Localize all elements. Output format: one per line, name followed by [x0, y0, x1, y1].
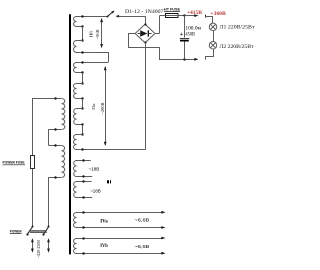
label IVb — [100, 244, 108, 249]
lamp L2 — [209, 42, 217, 50]
svg-text:HT FUSE: HT FUSE — [164, 7, 180, 11]
winding IIIa loops — [74, 161, 77, 177]
winding IIa loops 4 — [74, 135, 77, 150]
capacitor 100uF 450V — [180, 16, 190, 60]
winding IVa top lead — [76, 211, 166, 214]
primary top lead — [33, 97, 62, 156]
switch HV — [107, 11, 115, 18]
label ~6.6V upper — [135, 218, 150, 224]
label HT FUSE — [164, 7, 180, 11]
label IVa — [100, 219, 108, 224]
wire IIb-IIa series link — [108, 52, 110, 62]
winding IIIb loops — [74, 182, 77, 198]
connector tick +360V — [205, 15, 213, 18]
winding IVa loops — [74, 213, 77, 228]
svg-text:IIб: IIб — [89, 31, 94, 38]
winding IIIb top lead — [76, 180, 92, 182]
label ~200V — [100, 102, 105, 114]
winding IIa jog 2 — [76, 97, 84, 109]
bridge rectifier D1-12 — [135, 23, 155, 43]
arrow 0V rail — [183, 58, 198, 61]
primary loops upper — [62, 99, 65, 130]
winding IIb top lead — [76, 15, 107, 17]
winding IVb bottom lead — [76, 252, 166, 255]
svg-text:~6,6В: ~6,6В — [135, 244, 150, 250]
svg-text:Л2 220В/25Вт: Л2 220В/25Вт — [220, 44, 255, 50]
lamp L1 — [209, 23, 217, 31]
winding IIa bottom lead — [76, 148, 145, 150]
winding IIa loops 3 — [74, 109, 77, 125]
label POWER — [10, 230, 22, 234]
winding IIa loops 2 — [74, 84, 77, 99]
winding IIIb bottom lead — [76, 196, 92, 198]
label ~18V upper — [89, 167, 100, 173]
svg-text:~6,6В: ~6,6В — [135, 218, 150, 224]
primary tap jog — [48, 128, 61, 146]
wire bridge minus to 0V rail — [129, 34, 197, 60]
wire to lamp L1 — [212, 16, 214, 23]
label III — [108, 180, 111, 183]
svg-text:+: + — [180, 31, 184, 38]
winding IIIa bottom lead — [76, 175, 92, 177]
svg-text:POWER FUSE: POWER FUSE — [3, 161, 25, 165]
winding IIa jog 1 — [76, 71, 84, 84]
svg-text:IVb: IVb — [100, 244, 108, 249]
measure arrow ~200V — [104, 66, 107, 146]
winding IIa top lead — [76, 61, 108, 63]
label D1-12 - 1N4007 — [125, 9, 164, 15]
primary loops lower — [62, 146, 65, 178]
svg-text:POWER: POWER — [10, 230, 22, 234]
label cap plus — [180, 31, 184, 38]
arrow +415V rail — [194, 14, 198, 17]
switch POWER pole right — [42, 226, 49, 236]
winding IIa loops 1 — [74, 63, 77, 73]
label ~6.6V lower — [135, 244, 150, 250]
wire to bridge top — [145, 16, 147, 24]
label ~220-230V — [36, 240, 41, 258]
svg-text:~200В: ~200В — [100, 102, 105, 114]
transformer core — [69, 14, 71, 254]
label 450V — [185, 32, 195, 38]
label IIa — [91, 103, 96, 110]
winding IIb bottom lead — [76, 51, 108, 53]
switch POWER link bar — [30, 231, 47, 233]
winding IIb loops lower — [74, 41, 77, 53]
winding IIa jog 3 — [76, 123, 84, 135]
svg-text:IIа: IIа — [91, 103, 96, 110]
svg-text:IVa: IVa — [100, 219, 108, 224]
primary bottom lead — [48, 176, 61, 227]
svg-text:450В: 450В — [185, 32, 195, 38]
svg-text:~18В: ~18В — [89, 167, 100, 173]
label IIb — [89, 31, 94, 38]
svg-text:Л1 220В/25Вт: Л1 220В/25Вт — [220, 25, 256, 31]
fuse HT FUSE — [166, 14, 197, 18]
winding IIb loops upper — [74, 17, 77, 27]
fuse power FUSE — [31, 156, 35, 227]
label +415V — [187, 11, 203, 16]
label ~96V — [95, 29, 100, 39]
label 100.0m — [185, 26, 201, 32]
svg-text:~96В: ~96В — [95, 29, 100, 39]
switch POWER pole left — [26, 226, 33, 236]
winding IIIa top lead — [76, 159, 91, 161]
label L1 220V/25W — [220, 25, 256, 31]
label POWER FUSE — [3, 161, 26, 165]
label +360V — [210, 12, 226, 17]
label L2 220V/25W — [220, 44, 255, 50]
winding IVb loops — [74, 239, 77, 254]
wire L2 return — [206, 49, 214, 60]
wire bridge AC to winding IIa — [145, 43, 147, 150]
winding IVa bottom lead — [76, 226, 166, 229]
mains arrow left — [31, 238, 34, 253]
mains arrow right — [47, 238, 50, 253]
svg-text:D1-12 - 1N4007: D1-12 - 1N4007 — [125, 9, 164, 15]
svg-text:~18В: ~18В — [90, 188, 101, 194]
svg-text:+360В: +360В — [210, 12, 226, 17]
winding IIb series jog — [76, 25, 84, 41]
svg-text:+415В: +415В — [187, 11, 203, 16]
wire connector arrow to switch — [116, 15, 146, 18]
measure arrow ~96V — [100, 18, 103, 48]
svg-text:~220-230В: ~220-230В — [36, 240, 41, 258]
wire bridge plus to fuse — [155, 16, 166, 34]
label ~18V lower — [90, 188, 101, 194]
winding IVb top lead — [76, 237, 166, 240]
wire L1 to L2 — [213, 31, 215, 42]
